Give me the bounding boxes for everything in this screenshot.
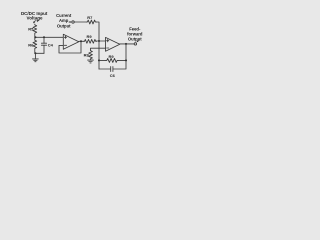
- wire R7 to summing node: [96, 22, 99, 41]
- node junction C4 tap: [43, 36, 45, 38]
- wire U1 feedback loop: [59, 41, 81, 53]
- wire C4 bottom to ground rail: [35, 52, 44, 54]
- svg-text:Voltage: Voltage: [27, 16, 43, 21]
- op-amp U2: [106, 37, 120, 51]
- resistor R5: [33, 24, 37, 37]
- node junction R5/R6: [34, 36, 36, 38]
- ground (left): [33, 53, 39, 61]
- ground (under R8): [88, 60, 94, 63]
- wire terminal to R7: [74, 21, 86, 23]
- wire feedback C6 branch left: [99, 68, 111, 70]
- node junction summing node: [98, 40, 100, 42]
- svg-text:Output: Output: [57, 23, 71, 28]
- node junction U2 output: [125, 43, 127, 45]
- node junction feedback right: [125, 59, 127, 61]
- svg-text:R9: R9: [109, 54, 115, 59]
- capacitor C4: [41, 37, 46, 53]
- svg-text:R8: R8: [84, 52, 90, 57]
- wire U1 output: [79, 40, 84, 42]
- svg-text:R7: R7: [87, 15, 93, 20]
- resistor R8: [89, 50, 93, 60]
- wire divider node to op-amp U1 + input: [35, 36, 63, 38]
- svg-text:R6: R6: [28, 42, 34, 47]
- node: output label arrow: [137, 40, 139, 42]
- svg-text:Output: Output: [128, 36, 142, 41]
- wire feedback R9 branch right: [118, 59, 126, 61]
- resistor R9 (U1 output to summing node): [84, 39, 97, 43]
- capacitor C6: [111, 67, 113, 72]
- resistor R6: [33, 37, 37, 53]
- node: Current Amp Output terminal arrow: [69, 21, 72, 23]
- resistor R7: [86, 20, 96, 24]
- wire U2 output: [120, 43, 134, 45]
- node: plus polarity mark: [37, 20, 39, 22]
- node junction U1 output: [80, 40, 82, 42]
- wire into U2 inverting input: [96, 40, 105, 42]
- op-amp U1 (voltage follower): [63, 34, 79, 49]
- node: Feed-forward Output terminal: [134, 43, 136, 45]
- wire U2 + input to R8: [91, 48, 106, 50]
- svg-text:C6: C6: [110, 73, 116, 78]
- node junction feedback left: [98, 59, 100, 61]
- wire feedback left vertical: [98, 41, 100, 69]
- svg-text:R9: R9: [86, 34, 92, 39]
- resistor R9 (feedback): [106, 58, 118, 62]
- node: Current Amp Output terminal: [72, 21, 74, 23]
- svg-text:R5: R5: [28, 26, 34, 31]
- svg-text:C4: C4: [48, 42, 54, 47]
- node junction ground: [34, 52, 36, 54]
- node: DC/DC input label arrow: [33, 21, 35, 24]
- wire feedback C6 branch right: [113, 44, 126, 69]
- wire feedback R9 branch left: [99, 59, 106, 61]
